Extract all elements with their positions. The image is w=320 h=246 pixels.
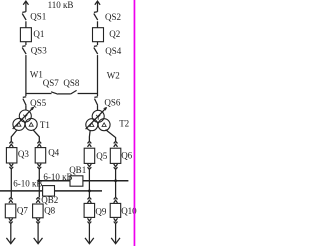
breaker Q1 — [20, 28, 31, 42]
wire: T2 secondary right leg to Q6 — [106, 130, 116, 142]
svg-text:6-10 кВ: 6-10 кВ — [43, 172, 72, 182]
svg-text:Q5: Q5 — [96, 151, 107, 161]
wire Q2 to QS4 — [97, 42, 99, 45]
bus: lower 6-10 kV section (left) — [0, 190, 102, 192]
svg-text:Q6: Q6 — [121, 151, 132, 161]
wire: T2 secondary left leg to Q5 — [88, 130, 91, 141]
breaker Q5 — [84, 148, 95, 163]
wire QS5 to T1 — [25, 106, 27, 111]
node: 110 kV supply arrow left (incoming line W1 top) — [23, 1, 28, 12]
withdrawable contact above Q5 — [88, 141, 92, 147]
svg-text:110 кВ: 110 кВ — [48, 0, 74, 10]
withdrawable contact below Q10 — [114, 218, 118, 223]
breaker Q4 — [35, 148, 46, 163]
transformer T2 (three-winding) — [86, 110, 110, 130]
svg-text:Q4: Q4 — [48, 148, 59, 158]
svg-text:W1: W1 — [30, 70, 43, 80]
svg-text:Q8: Q8 — [44, 206, 55, 216]
svg-text:W2: W2 — [107, 70, 120, 80]
junction: Q4 line to upper bus — [38, 179, 41, 182]
bus coupler QB2 — [43, 186, 55, 197]
transformer T1 (three-winding) — [13, 110, 37, 130]
breaker Q7 — [5, 204, 16, 218]
svg-text:Q9: Q9 — [95, 207, 106, 217]
wire Q6 through upper bus down to Q10 — [115, 169, 117, 197]
withdrawable contact below Q4 — [37, 164, 41, 169]
svg-text:QS4: QS4 — [105, 46, 122, 56]
svg-text:Q2: Q2 — [109, 29, 120, 39]
junction: Q6 line to upper bus — [114, 179, 117, 182]
disconnector QS4 — [94, 46, 98, 54]
svg-text:QS7: QS7 — [43, 78, 60, 88]
wire Q4 through buses down to Q8 — [38, 169, 40, 197]
bus coupler QB1 — [70, 176, 83, 186]
disconnector QS7 (blade on tie) — [51, 92, 58, 94]
svg-text:T2: T2 — [119, 118, 129, 128]
wire feeder Q8 with outgoing arrow — [34, 224, 43, 244]
breaker Q2 — [93, 28, 104, 42]
disconnector QS2 — [94, 12, 98, 20]
svg-text:QS8: QS8 — [63, 78, 80, 88]
svg-text:Q1: Q1 — [33, 29, 44, 39]
decorative magenta margin line — [134, 0, 136, 246]
svg-text:QS1: QS1 — [30, 12, 46, 22]
svg-text:Q3: Q3 — [18, 149, 29, 159]
wire: T1 secondary right leg to Q4 — [33, 130, 40, 142]
withdrawable contact above Q8 — [36, 197, 40, 203]
disconnector QS1 — [22, 12, 26, 20]
wire: tie right segment — [78, 93, 98, 95]
disconnector QS8 (blade on tie) — [71, 90, 77, 94]
wire: T1 secondary left leg to Q3 — [11, 130, 17, 142]
svg-text:Q7: Q7 — [17, 206, 28, 216]
withdrawable contact above Q3 — [9, 141, 13, 147]
wire W1 (left 110kV branch down to transformer) — [25, 55, 27, 96]
withdrawable contact above Q4 — [37, 141, 41, 147]
withdrawable contact below Q7 — [9, 218, 13, 223]
wire W2 (right 110kV branch down to transformer) — [97, 55, 99, 96]
withdrawable contact below Q3 — [9, 164, 13, 169]
wire feeder Q9 with outgoing arrow — [85, 224, 94, 244]
svg-text:QS6: QS6 — [104, 98, 121, 108]
disconnector QS6 — [94, 97, 97, 106]
wire Q5 through buses down to Q9 — [88, 169, 90, 197]
svg-text:QS2: QS2 — [105, 12, 121, 22]
wire feeder Q7 with outgoing arrow — [6, 224, 15, 244]
withdrawable contact above Q7 — [9, 197, 13, 203]
svg-text:QS5: QS5 — [30, 98, 47, 108]
disconnector QS3 — [22, 46, 26, 54]
breaker Q9 — [84, 203, 95, 217]
wire QS1 to Q1 — [25, 21, 27, 27]
tap-changer arrow T2 — [86, 107, 107, 129]
wire QS6 to T2 — [97, 106, 99, 111]
wire Q1 to QS3 — [25, 42, 27, 45]
svg-text:QS3: QS3 — [31, 45, 48, 55]
wire: 110kV bridge tie left segment — [26, 93, 52, 95]
svg-text:QB2: QB2 — [41, 195, 58, 205]
wire: tie middle segment — [58, 93, 71, 95]
disconnector QS5 — [23, 97, 26, 106]
breaker Q10 — [110, 203, 121, 217]
withdrawable contact below Q8 — [36, 218, 40, 223]
junction: Q5 line to lower bus — [88, 190, 91, 193]
withdrawable contact below Q5 — [88, 164, 92, 169]
wire QS2 to Q2 — [97, 21, 99, 27]
wire feeder Q10 with outgoing arrow — [111, 224, 120, 244]
breaker Q6 — [110, 148, 121, 163]
svg-text:6-10 кВ: 6-10 кВ — [13, 178, 42, 188]
withdrawable contact above Q9 — [88, 197, 92, 203]
breaker Q3 — [6, 148, 17, 163]
withdrawable contact above Q6 — [114, 141, 118, 147]
withdrawable contact above Q10 — [114, 197, 118, 203]
breaker Q8 — [33, 204, 44, 218]
withdrawable contact below Q9 — [88, 218, 92, 223]
withdrawable contact below Q6 — [114, 164, 118, 169]
tap-changer arrow T1 — [13, 107, 34, 129]
svg-text:QB1: QB1 — [69, 165, 86, 175]
bus: upper 6-10 kV section (right) — [39, 180, 128, 182]
wire Q3 to left bus — [10, 169, 12, 197]
node: 110 kV supply arrow right (incoming line W2 top) — [95, 1, 100, 12]
svg-text:T1: T1 — [40, 120, 50, 130]
